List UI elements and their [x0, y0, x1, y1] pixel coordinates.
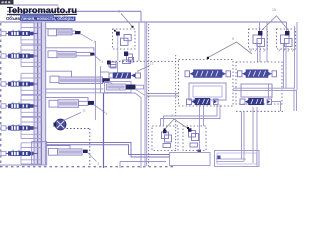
svg-text:4: 4: [119, 88, 121, 92]
svg-text:15: 15: [272, 8, 276, 12]
svg-text:ления, новости, обзоры: ления, новости, обзоры: [21, 16, 74, 21]
svg-text:8: 8: [98, 162, 100, 166]
svg-text:12: 12: [150, 62, 154, 66]
svg-text:10: 10: [146, 95, 150, 99]
svg-text:5: 5: [106, 112, 108, 116]
svg-text:2: 2: [94, 40, 96, 44]
svg-text:6: 6: [118, 10, 120, 14]
svg-text:11: 11: [83, 109, 87, 113]
svg-text:9: 9: [232, 37, 234, 41]
svg-text:3: 3: [102, 60, 104, 64]
svg-text:Объяв: Объяв: [6, 16, 20, 21]
